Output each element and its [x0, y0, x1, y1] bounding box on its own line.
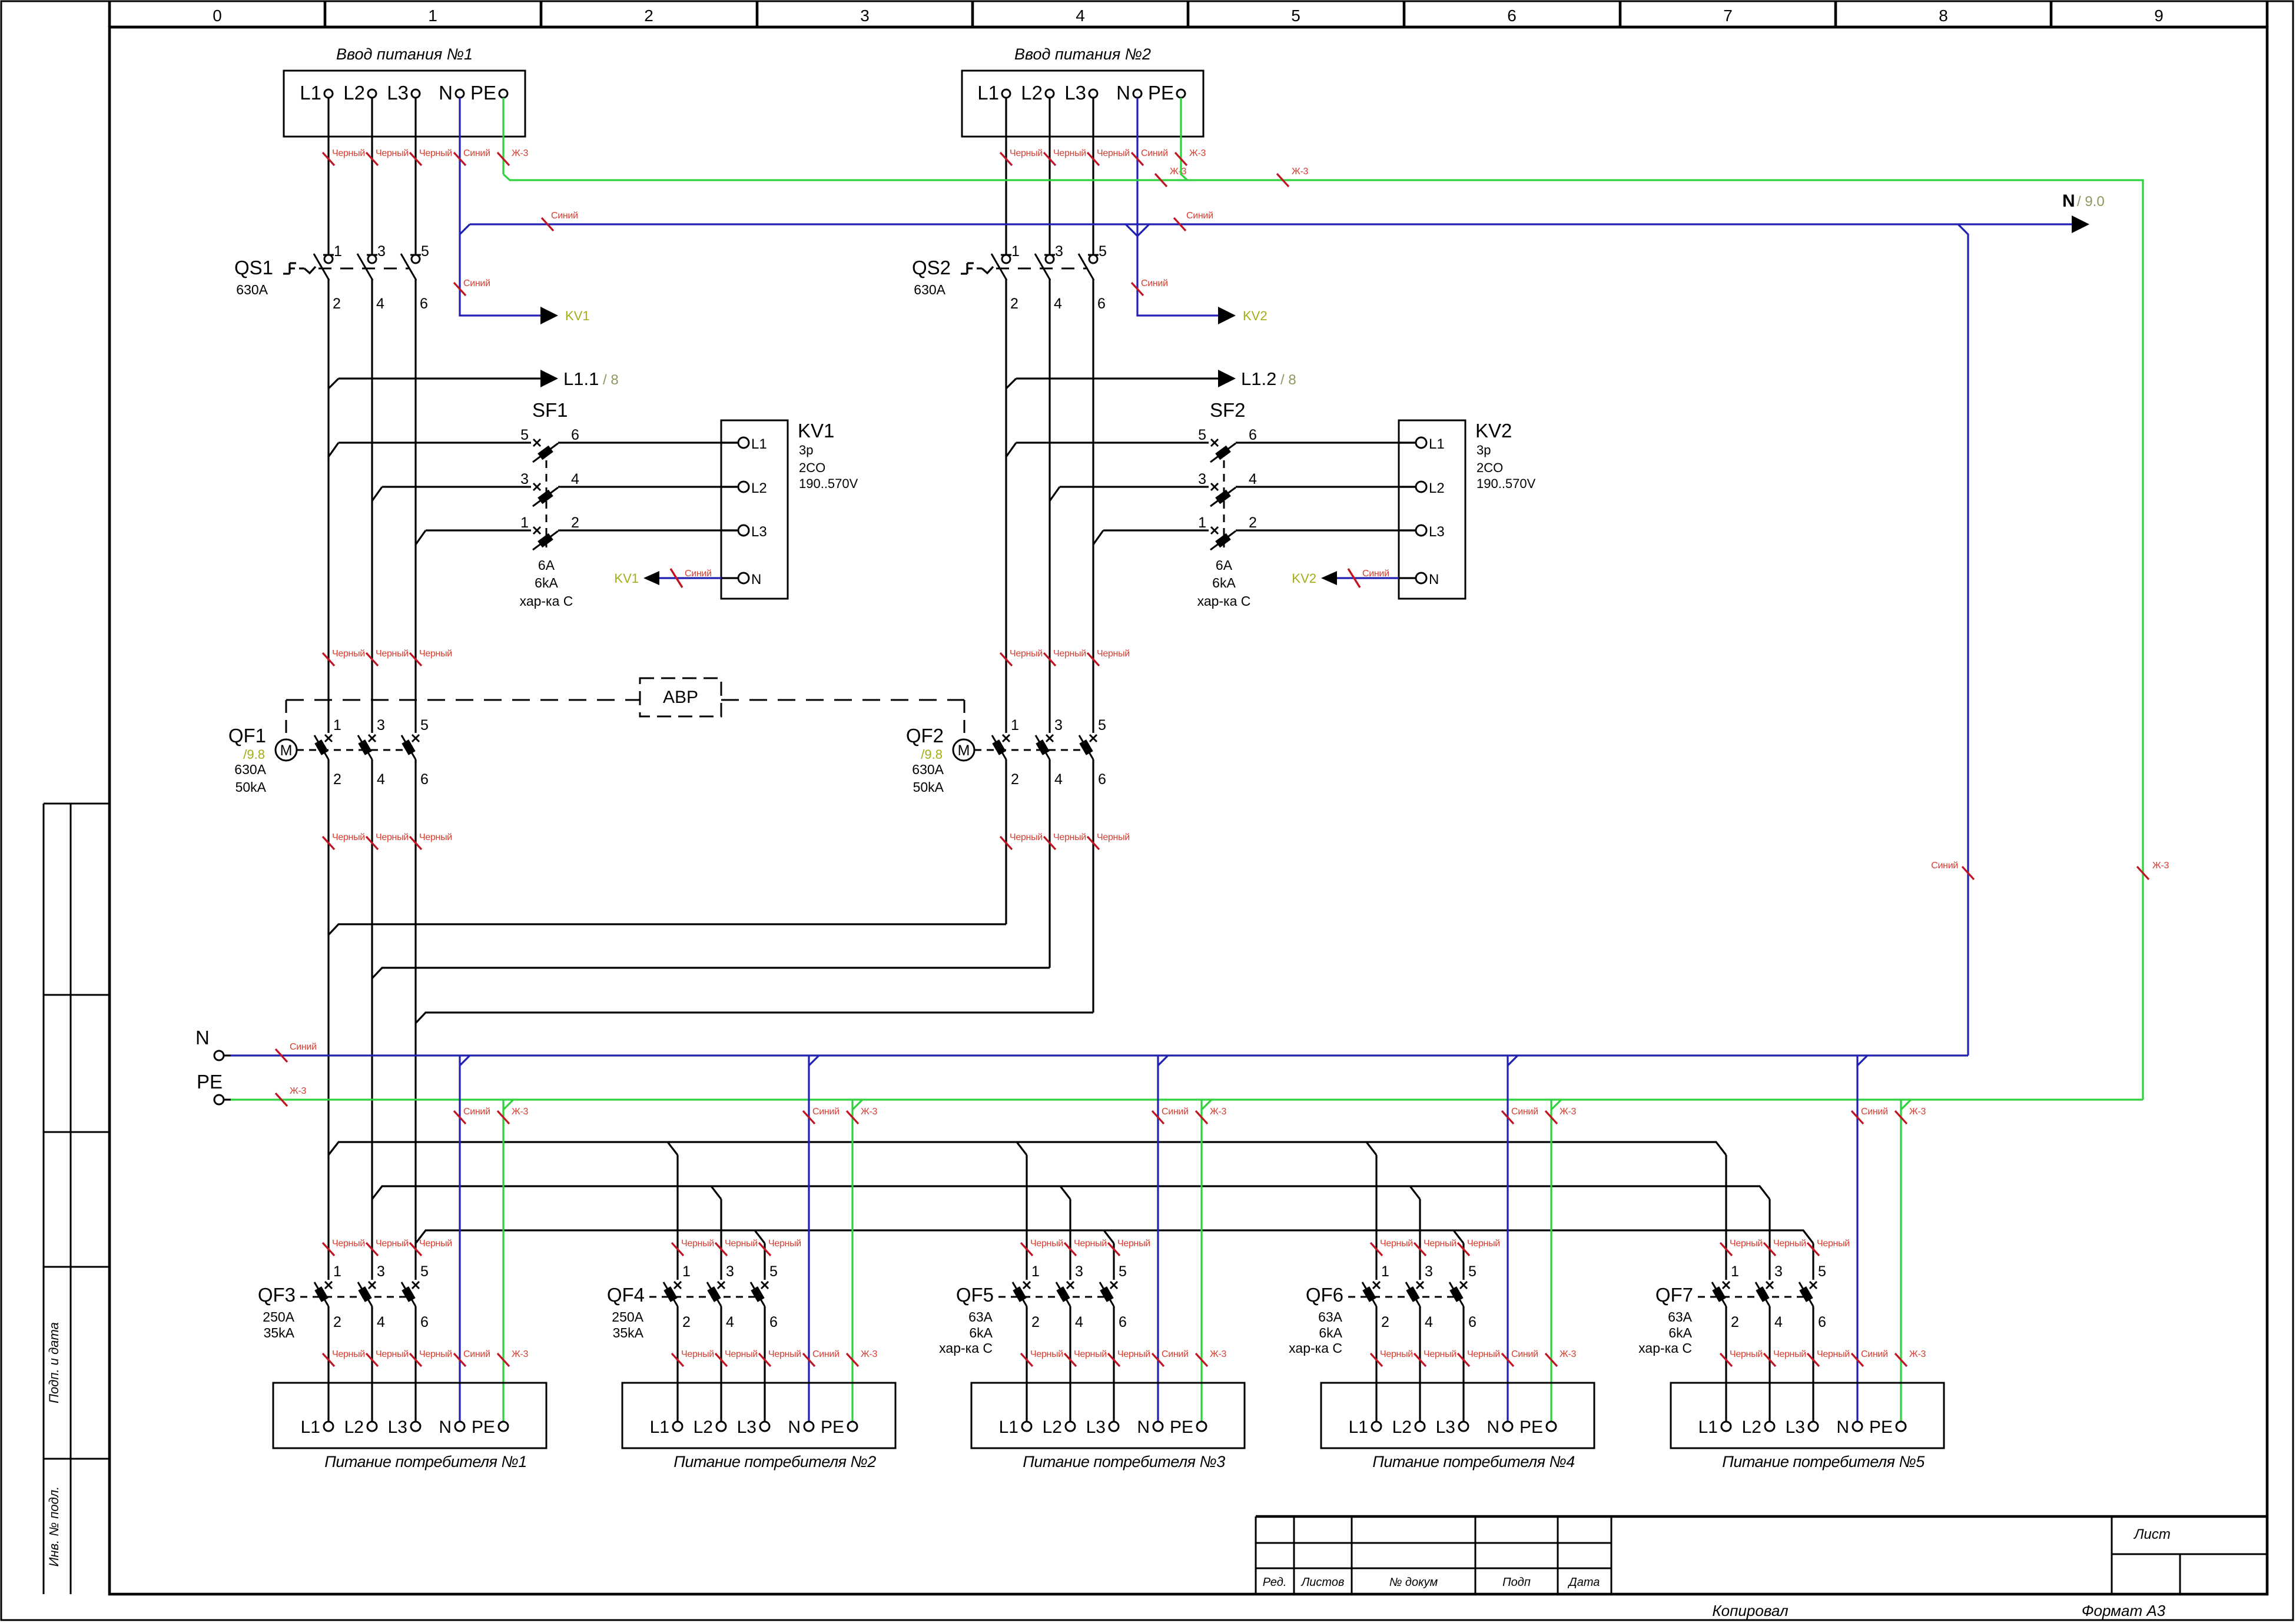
svg-text:63A: 63A: [1318, 1309, 1343, 1325]
svg-text:5: 5: [420, 717, 429, 733]
branch L2 to consumer 2: [711, 1186, 721, 1199]
branch L3 to consumer 4: [1454, 1230, 1464, 1243]
cable label Черный (QF3 out L3): [410, 1349, 452, 1366]
wire KV2 N to coil reference (blue): [1337, 577, 1399, 579]
cable label Синий (N to consumer 5): [1852, 1349, 1888, 1366]
junction N bus / drop 5: [1857, 1056, 1867, 1066]
KV2 label and parameters: [1475, 420, 1536, 491]
ABP linkage dashed line: [286, 699, 640, 701]
svg-text:2: 2: [333, 1314, 341, 1330]
wire QF4 pin 6 to consumer box 2: [764, 1306, 765, 1422]
svg-text:3: 3: [1774, 1263, 1783, 1280]
svg-text:630A: 630A: [234, 762, 266, 777]
svg-text:Черный: Черный: [376, 1349, 409, 1359]
svg-text:/9.8: /9.8: [921, 747, 943, 762]
cable label Черный (QS1-QF1 L1): [323, 649, 365, 666]
cable label Черный (QF3 in L2): [366, 1239, 409, 1256]
cable label Черный (QF4 out L2): [715, 1349, 758, 1366]
svg-text:L2: L2: [1429, 480, 1445, 496]
svg-text:QF7: QF7: [1655, 1284, 1693, 1306]
svg-text:6: 6: [769, 1314, 778, 1330]
wire QS1 pin 2 down to QF1 pin 1: [327, 279, 329, 733]
voltage relay KV1 3p 2CO 190..570V: [721, 420, 788, 599]
wire drop L2 to QF5 pin 3: [1069, 1199, 1071, 1280]
svg-text:Ж-3: Ж-3: [2152, 861, 2169, 871]
svg-text:Черный: Черный: [1467, 1239, 1500, 1249]
junction N bus / drop 3: [1158, 1056, 1168, 1066]
cable label Черный (QF2 out L3): [1087, 832, 1130, 849]
SF1 label: [532, 399, 568, 421]
cable label Черный (QF6 out L1): [1371, 1349, 1413, 1366]
svg-text:L3: L3: [1436, 1418, 1455, 1437]
svg-text:L1: L1: [650, 1418, 669, 1437]
wire drop L2 to QF4 pin 3: [720, 1199, 722, 1280]
svg-text:Питание потребителя №4: Питание потребителя №4: [1372, 1453, 1575, 1471]
svg-text:АВР: АВР: [663, 688, 698, 707]
svg-text:Синий: Синий: [1511, 1349, 1538, 1359]
svg-text:L1: L1: [751, 436, 767, 452]
svg-text:Черный: Черный: [332, 832, 365, 842]
svg-text:Синий: Синий: [463, 148, 490, 158]
svg-text:Ж-3: Ж-3: [1170, 167, 1187, 177]
svg-text:5: 5: [1291, 6, 1300, 25]
svg-text:N: N: [788, 1418, 801, 1437]
junction N bus / drop 2: [809, 1056, 819, 1066]
consumer terminal box №4: [1321, 1383, 1594, 1471]
svg-text:630A: 630A: [914, 282, 945, 297]
svg-text:Питание потребителя №1: Питание потребителя №1: [324, 1453, 527, 1471]
svg-text:Черный: Черный: [1424, 1349, 1456, 1359]
N top bus (blue) to right edge: [470, 223, 2072, 225]
QF6 label: [1306, 1284, 1343, 1306]
QF7 pin numbers: [1731, 1263, 1826, 1330]
cable label Черный (QF1 out L1): [323, 832, 365, 849]
wire QF2 pin 4 down to tie L2: [1049, 759, 1050, 968]
wire drop L2 to QF6 pin 3: [1419, 1199, 1421, 1280]
svg-text:L1: L1: [301, 1418, 320, 1437]
consumer 2 terminal PE: [821, 1418, 857, 1437]
reference arrow KV1: [540, 307, 590, 324]
svg-text:35kA: 35kA: [264, 1325, 295, 1340]
QF2 pin numbers: [1011, 717, 1106, 788]
svg-text:1: 1: [1731, 1263, 1739, 1280]
cable label Черный (QF7 in L3): [1807, 1239, 1850, 1256]
cable label Ж-3 (PE drop 3): [1196, 1107, 1227, 1124]
QF5 pin numbers: [1031, 1263, 1127, 1330]
cable label Черный (QF4 in L1): [672, 1239, 714, 1256]
wire SF1 pin 4 to KV1 L2: [558, 486, 738, 487]
QF2 label: [906, 725, 944, 746]
wire QF5 pin 4 to consumer box 3: [1069, 1306, 1071, 1422]
cable label Черный (QF7 out L2): [1764, 1349, 1806, 1366]
svg-text:Черный: Черный: [1097, 649, 1130, 659]
KV1 label and parameters: [798, 420, 858, 491]
svg-text:QF6: QF6: [1306, 1284, 1343, 1306]
svg-text:KV2: KV2: [1243, 308, 1268, 323]
consumer terminal box №2: [622, 1383, 895, 1471]
distribution bus L2: [372, 1186, 1770, 1199]
QS2 pin numbers: [1010, 243, 1107, 312]
svg-text:N: N: [1429, 572, 1439, 588]
svg-text:QF2: QF2: [906, 725, 944, 746]
svg-text:QF1: QF1: [228, 725, 266, 746]
svg-text:6: 6: [420, 771, 429, 788]
cable label Ж-3 (input1 PE): [497, 148, 529, 165]
QF2 rating 630A 50kA: [912, 762, 944, 795]
svg-text:L3: L3: [388, 1418, 407, 1437]
wire QF4 pin 4 to consumer box 2: [720, 1306, 722, 1422]
svg-text:3: 3: [1055, 243, 1063, 260]
svg-text:5: 5: [520, 427, 529, 443]
wire QF2 pin 2 down to tie L1: [1005, 759, 1007, 924]
QS1 rating 630A: [236, 282, 268, 297]
input 2 terminal L3: [1064, 82, 1097, 104]
svg-text:Лист: Лист: [2133, 1526, 2171, 1542]
consumer 4 terminal L2: [1392, 1418, 1425, 1437]
svg-text:SF1: SF1: [532, 399, 568, 421]
svg-text:Ж-3: Ж-3: [512, 1107, 529, 1117]
svg-text:Черный: Черный: [1010, 148, 1043, 158]
svg-text:Ж-3: Ж-3: [861, 1349, 878, 1359]
svg-text:6: 6: [1468, 1314, 1477, 1330]
PE drop to consumer 2 (green): [851, 1100, 853, 1422]
wire drop L2 to QF7 pin 3: [1769, 1199, 1770, 1280]
branch L3 to consumer 2: [755, 1230, 765, 1243]
QF4 label: [607, 1284, 645, 1306]
svg-text:Синий: Синий: [1162, 1349, 1189, 1359]
svg-text:3p: 3p: [799, 443, 813, 457]
svg-text:Синий: Синий: [812, 1349, 840, 1359]
cable label Синий (N to consumer 3): [1152, 1349, 1189, 1366]
cable label Синий (input2 N): [1132, 148, 1168, 165]
svg-text:хар-ка C: хар-ка C: [1638, 1340, 1692, 1356]
svg-text:1: 1: [428, 6, 437, 25]
svg-text:L3: L3: [737, 1418, 757, 1437]
svg-text:2: 2: [1731, 1314, 1739, 1330]
svg-text:6A: 6A: [538, 557, 555, 573]
junction PE bus / drop 5: [1901, 1100, 1911, 1110]
cable label Черный (QF5 out L3): [1108, 1349, 1150, 1366]
consumer 1 terminal N: [439, 1418, 464, 1437]
svg-text:PE: PE: [197, 1071, 223, 1093]
wire QF1 pin 6 down to QF3 pin 5: [414, 759, 416, 1280]
consumer terminal box №1: [273, 1383, 546, 1471]
svg-text:Черный: Черный: [1053, 649, 1086, 659]
circuit breaker QF7: [1698, 1282, 1817, 1306]
SF2 label: [1210, 399, 1246, 421]
svg-text:L3: L3: [1086, 1418, 1106, 1437]
svg-text:/ 8: / 8: [1280, 372, 1296, 388]
voltage relay KV2 3p 2CO 190..570V: [1399, 420, 1465, 599]
svg-text:хар-ка C: хар-ка C: [1197, 593, 1251, 609]
consumer 5 terminal N: [1836, 1418, 1862, 1437]
svg-text:Ж-3: Ж-3: [512, 1349, 529, 1359]
cable label Черный (input2 L2): [1044, 148, 1086, 165]
svg-text:1: 1: [682, 1263, 691, 1280]
junction PE bus / drop 2: [852, 1100, 862, 1110]
consumer 2 terminal L2: [694, 1418, 726, 1437]
automatic transfer switch controller АВР: [640, 678, 721, 716]
consumer 3 terminal PE: [1170, 1418, 1206, 1437]
QF7 label: [1655, 1284, 1693, 1306]
svg-text:Черный: Черный: [1074, 1349, 1107, 1359]
svg-text:/9.8: /9.8: [243, 747, 265, 762]
cable label Черный (QF6 in L3): [1458, 1239, 1500, 1256]
svg-text:N: N: [1836, 1418, 1849, 1437]
wire drop L1 to QF6 pin 1: [1375, 1155, 1377, 1280]
svg-text:630A: 630A: [236, 282, 268, 297]
svg-text:Синий: Синий: [1141, 148, 1168, 158]
svg-text:Черный: Черный: [376, 1239, 409, 1249]
cable label Синий (N to consumer 2): [803, 1349, 840, 1366]
svg-text:5: 5: [769, 1263, 778, 1280]
svg-text:Формат А3: Формат А3: [2082, 1602, 2166, 1619]
cable label Синий (N drop 4): [1502, 1107, 1538, 1124]
svg-text:Синий: Синий: [685, 569, 712, 579]
svg-text:Черный: Черный: [681, 1349, 714, 1359]
cable label Черный (QF7 in L1): [1720, 1239, 1763, 1256]
wire KV1 N to coil reference (blue): [659, 577, 721, 579]
node N (bottom neutral bus terminal): [195, 1027, 231, 1060]
svg-text:N: N: [439, 1418, 452, 1437]
cable label Синий (N2 to KV2): [1132, 278, 1168, 296]
cable label Синий (KV1 N): [671, 569, 712, 588]
wire PE input1 (green) down: [502, 98, 504, 174]
wire drop L1 to QF7 pin 1: [1725, 1155, 1727, 1280]
junction PE bus / drop 1: [503, 1100, 513, 1110]
svg-text:PE: PE: [1869, 1418, 1893, 1437]
disconnect switch QS1 630A: [283, 254, 421, 280]
svg-text:3: 3: [377, 243, 386, 260]
svg-text:L2: L2: [343, 82, 365, 104]
svg-text:L1: L1: [1429, 436, 1445, 452]
svg-text:Черный: Черный: [1773, 1239, 1806, 1249]
wire tie L1 QF1-QF2: [329, 924, 1006, 935]
svg-text:4: 4: [1076, 6, 1085, 25]
QF1 pin numbers: [333, 717, 429, 788]
SF2 rating 6A 6kA хар-ка C: [1197, 557, 1251, 609]
PE drop to consumer 4 (green): [1550, 1100, 1552, 1422]
V junction of N2 into N top bus: [1126, 224, 1149, 236]
svg-text:Черный: Черный: [376, 832, 409, 842]
QF5 label: [956, 1284, 994, 1306]
PE drop to consumer 1 (green): [502, 1100, 504, 1422]
cable label Черный (QS1-QF1 L2): [366, 649, 409, 666]
cable label Черный (QF7 out L3): [1807, 1349, 1850, 1366]
net arrow N / 9.0: [2062, 191, 2105, 233]
cable label Ж-3 (PE bus before input2): [1155, 167, 1187, 187]
QF2 sheet ref /9.8: [921, 747, 943, 762]
QF5 ratings: [939, 1309, 993, 1356]
node PE (bottom PE bus terminal): [197, 1071, 231, 1104]
cable label Синий (N1 to KV1): [454, 278, 490, 296]
svg-text:4: 4: [1774, 1314, 1783, 1330]
wire QF3 pin 6 to consumer box 1: [414, 1306, 416, 1422]
svg-text:6kA: 6kA: [535, 575, 558, 590]
svg-text:8: 8: [1939, 6, 1948, 25]
wire SF1 pin 2 to KV1 L3: [558, 529, 738, 531]
consumer terminal box №3: [971, 1383, 1245, 1471]
svg-text:Синий: Синий: [1511, 1107, 1538, 1117]
svg-text:SF2: SF2: [1210, 399, 1246, 421]
consumer 2 terminal L1: [650, 1418, 682, 1437]
cable label Ж-3 (PE drop 4): [1545, 1107, 1577, 1124]
svg-text:L2: L2: [751, 480, 767, 496]
cable label Черный (QF6 out L3): [1458, 1349, 1500, 1366]
svg-text:3: 3: [1075, 1263, 1083, 1280]
svg-text:6: 6: [1119, 1314, 1127, 1330]
QF1 rating 630A 50kA: [234, 762, 266, 795]
svg-text:KV1: KV1: [798, 420, 834, 442]
svg-text:1: 1: [1011, 243, 1020, 260]
svg-text:6: 6: [420, 296, 428, 312]
QF6 ratings: [1289, 1309, 1342, 1356]
svg-text:6A: 6A: [1216, 557, 1233, 573]
svg-text:6kA: 6kA: [1319, 1325, 1342, 1340]
svg-text:Питание потребителя №2: Питание потребителя №2: [673, 1453, 876, 1471]
wire tie L2 QF1-QF2: [372, 968, 1050, 978]
svg-text:Черный: Черный: [1730, 1239, 1763, 1249]
svg-text:1: 1: [333, 717, 341, 733]
wire QF5 pin 2 to consumer box 3: [1026, 1306, 1027, 1422]
svg-text:Черный: Черный: [1773, 1349, 1806, 1359]
svg-text:Синий: Синий: [1362, 569, 1389, 579]
cable label Ж-3 (PE to consumer 2): [847, 1349, 878, 1366]
svg-text:Черный: Черный: [1380, 1349, 1413, 1359]
wire QS2 pin 4 down to QF2 pin 3: [1049, 279, 1050, 733]
svg-text:Синий: Синий: [551, 211, 578, 221]
svg-text:Черный: Черный: [419, 649, 452, 659]
consumer 4 terminal PE: [1519, 1418, 1556, 1437]
wire input1 L3 to QS1 pin 5: [414, 98, 416, 255]
input 1 terminal L1: [300, 82, 333, 104]
QF3 pin numbers: [333, 1263, 429, 1330]
svg-text:Питание потребителя №3: Питание потребителя №3: [1023, 1453, 1225, 1471]
wire QF5 pin 6 to consumer box 3: [1113, 1306, 1114, 1422]
svg-text:N: N: [1137, 1418, 1150, 1437]
wire QF1 pin 2 down to QF3 pin 1: [327, 759, 329, 1280]
SF1 rating 6A 6kA хар-ка C: [520, 557, 573, 609]
svg-text:Синий: Синий: [812, 1107, 840, 1117]
svg-text:Синий: Синий: [290, 1042, 317, 1052]
N drop to consumer 1 (blue): [459, 1056, 460, 1422]
svg-text:3: 3: [377, 1263, 385, 1280]
cable label Ж-3 (PE to consumer 5): [1895, 1349, 1926, 1366]
svg-text:хар-ка C: хар-ка C: [939, 1340, 993, 1356]
consumer 3 terminal L2: [1043, 1418, 1075, 1437]
svg-text:KV2: KV2: [1475, 420, 1512, 442]
cable label Черный (QF7 out L1): [1720, 1349, 1763, 1366]
svg-text:2CO: 2CO: [799, 460, 825, 475]
svg-text:L3: L3: [1064, 82, 1086, 104]
wire input2 L1 to QS2 pin 1: [1005, 98, 1007, 255]
svg-text:4: 4: [1054, 296, 1062, 312]
svg-text:Черный: Черный: [1817, 1349, 1850, 1359]
circuit breaker QF5: [998, 1282, 1117, 1306]
PE top bus (green) to right riser: [503, 174, 2143, 1100]
svg-text:Ж-3: Ж-3: [1909, 1107, 1926, 1117]
svg-text:N: N: [1487, 1418, 1499, 1437]
svg-text:Черный: Черный: [1053, 148, 1086, 158]
QS1 label: [234, 257, 273, 278]
svg-text:Синий: Синий: [1861, 1107, 1888, 1117]
input 2 terminal PE: [1148, 82, 1185, 104]
input terminal block Ввод питания №1: [284, 45, 525, 137]
svg-text:3: 3: [1054, 717, 1063, 733]
svg-text:Черный: Черный: [1817, 1239, 1850, 1249]
svg-text:Ввод питания №2: Ввод питания №2: [1014, 45, 1151, 63]
circuit breaker QF3: [300, 1282, 419, 1306]
cable label Черный (input1 L3): [410, 148, 452, 165]
svg-text:L1: L1: [300, 82, 321, 104]
QS1 pin numbers: [333, 243, 429, 312]
svg-text:Ж-3: Ж-3: [861, 1107, 878, 1117]
cable label Синий (N riser): [1931, 861, 1974, 879]
svg-text:Черный: Черный: [419, 1239, 452, 1249]
svg-text:M: M: [958, 742, 970, 759]
svg-text:5: 5: [1468, 1263, 1477, 1280]
svg-text:Ж-3: Ж-3: [1560, 1349, 1577, 1359]
input terminal block Ввод питания №2: [962, 45, 1203, 137]
consumer 3 terminal L3: [1086, 1418, 1119, 1437]
QF7 ratings: [1638, 1309, 1692, 1356]
svg-text:Черный: Черный: [1117, 1349, 1150, 1359]
consumer 4 terminal L1: [1349, 1418, 1381, 1437]
svg-text:Черный: Черный: [1424, 1239, 1456, 1249]
wire QF7 pin 2 to consumer box 5: [1725, 1306, 1727, 1422]
consumer 3 terminal L1: [999, 1418, 1031, 1437]
svg-text:L3: L3: [1429, 524, 1445, 540]
svg-text:/ 8: / 8: [603, 372, 619, 388]
svg-text:Черный: Черный: [1030, 1239, 1063, 1249]
N riser branch to N bus (blue): [1958, 224, 1968, 1056]
svg-text:QS1: QS1: [234, 257, 273, 278]
cable label Синий (N drop 1): [454, 1107, 490, 1124]
svg-text:Дата: Дата: [1568, 1576, 1600, 1589]
svg-text:N: N: [2062, 191, 2075, 211]
input 1 terminal L2: [343, 82, 376, 104]
cable label Синий (N drop 3): [1152, 1107, 1189, 1124]
svg-text:PE: PE: [821, 1418, 844, 1437]
svg-text:1: 1: [520, 515, 529, 531]
cable label Черный (QF4 out L1): [672, 1349, 714, 1366]
distribution bus L3: [416, 1230, 1813, 1243]
consumer 3 terminal N: [1137, 1418, 1163, 1437]
consumer 2 terminal L3: [737, 1418, 769, 1437]
svg-text:L3: L3: [1786, 1418, 1805, 1437]
svg-text:Подп. и дата: Подп. и дата: [47, 1322, 61, 1403]
cable label Черный (QF1 out L3): [410, 832, 452, 849]
wire QF3 pin 2 to consumer box 1: [327, 1306, 329, 1422]
wire drop L3 to QF6 pin 5: [1462, 1243, 1464, 1280]
QF6 pin numbers: [1381, 1263, 1477, 1330]
svg-text:Черный: Черный: [332, 649, 365, 659]
svg-text:L3: L3: [751, 524, 767, 540]
svg-text:Черный: Черный: [419, 832, 452, 842]
svg-text:KV1: KV1: [614, 571, 639, 586]
branch L3 to consumer 3: [1104, 1230, 1114, 1243]
svg-text:L1: L1: [1349, 1418, 1368, 1437]
cable label Синий (N bus after input1): [542, 211, 578, 231]
wire SF2 pin 6 to KV2 L1: [1236, 442, 1416, 443]
svg-text:N: N: [195, 1027, 210, 1048]
svg-text:1: 1: [1011, 717, 1019, 733]
net arrow L1.1 / 8: [329, 369, 619, 389]
wire tap L1 to SF2 pin 5: [1006, 443, 1016, 457]
svg-text:2: 2: [644, 6, 653, 25]
svg-text:4: 4: [571, 471, 579, 487]
consumer 4 terminal L3: [1436, 1418, 1468, 1437]
